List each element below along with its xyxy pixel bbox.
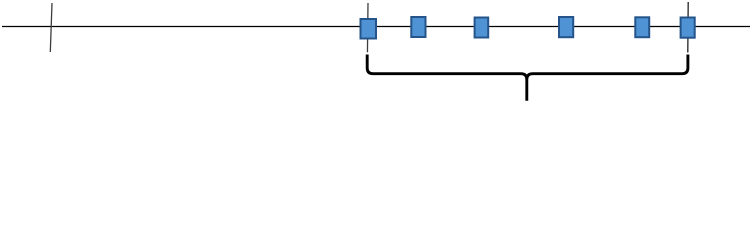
square 2	[411, 17, 425, 37]
square 3	[475, 18, 489, 38]
number line	[2, 26, 750, 28]
square 4	[559, 17, 573, 37]
tick mark at first square	[366, 3, 369, 52]
tick mark left	[50, 3, 52, 52]
tick mark at last square	[687, 2, 689, 53]
square 1	[361, 19, 377, 39]
square 5	[635, 17, 649, 37]
square 6	[681, 18, 695, 38]
underbrace	[367, 55, 688, 101]
